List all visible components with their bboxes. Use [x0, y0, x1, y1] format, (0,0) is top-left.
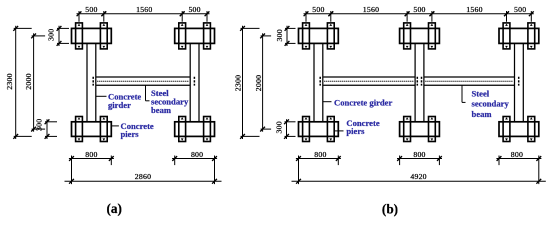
leader line: concrete girder (b) [323, 101, 332, 103]
svg-text:500: 500 [514, 5, 526, 14]
dimension 500 (b 1) [304, 5, 334, 16]
dimension 500 (a left) [77, 5, 107, 16]
a top-right pile cap [175, 28, 215, 43]
dimension 4920 (b) [292, 172, 546, 184]
b top-left pile cap [299, 28, 339, 43]
a top-left pier left [76, 23, 83, 49]
svg-text:300: 300 [35, 119, 44, 131]
svg-text:2000: 2000 [254, 75, 263, 91]
a bottom-right pier left [179, 117, 186, 142]
top dimension extension lines (b) [306, 11, 531, 22]
top dimension line (a) [77, 13, 210, 15]
svg-text:1560: 1560 [136, 5, 152, 14]
b top-right pier right [528, 23, 535, 49]
label Concrete girder (b) [334, 97, 392, 107]
b right concrete girder (double line) [515, 43, 524, 121]
dimension 500 (b 5) [504, 5, 534, 16]
label Steel secondary beam (b) [472, 89, 510, 119]
label Concrete piers (b) [346, 118, 379, 136]
svg-text:2300: 2300 [5, 73, 14, 89]
caption (a) [106, 201, 121, 216]
svg-text:Concrete girder: Concrete girder [334, 97, 392, 107]
label Steel secondary beam (a) [151, 88, 189, 115]
caption (b) [382, 202, 398, 217]
b bottom-left pier right [327, 117, 334, 142]
leader line: concrete piers (b) [334, 130, 343, 132]
a top-left pier right [100, 23, 107, 49]
svg-text:2860: 2860 [135, 172, 151, 181]
b left span steel secondary beam (solid edges + dotted centreline + dashed end caps) [320, 77, 417, 86]
svg-text:2300: 2300 [233, 75, 242, 91]
b top-left pier left [303, 23, 310, 49]
label Concrete girder (a) [108, 92, 141, 110]
dimension 500 (a right) [180, 5, 210, 16]
b bottom-mid pile cap [400, 122, 440, 137]
a bottom-right pier right [204, 117, 211, 142]
svg-text:300: 300 [275, 29, 284, 41]
b top-right pier left [503, 23, 510, 49]
a top-right pier left [179, 23, 186, 49]
b top-right pile cap [499, 28, 539, 43]
a steel secondary beam (solid edges + dotted centreline + dashed end caps) [93, 77, 194, 86]
svg-text:300: 300 [46, 29, 55, 41]
dimension 1560 (b 2) [328, 5, 409, 16]
dimension 800 (a left) [69, 150, 114, 184]
leader line: steel secondary beam (b) [462, 85, 466, 102]
svg-text:piers: piers [346, 126, 365, 136]
b top-left pier right [327, 23, 334, 49]
svg-text:secondary: secondary [472, 99, 510, 109]
dimension 2000 (a) [24, 33, 45, 131]
svg-text:800: 800 [85, 150, 97, 159]
a bottom-right pile cap [175, 122, 215, 137]
a top-left pile cap [72, 28, 112, 43]
b bottom-right pile cap [499, 122, 539, 137]
top dimension extension lines (a) [79, 11, 207, 22]
svg-text:beam: beam [151, 105, 172, 115]
svg-text:800: 800 [191, 150, 203, 159]
b top-mid pile cap [400, 28, 440, 43]
dimension 300 (a bottom) [35, 119, 58, 139]
svg-text:1560: 1560 [363, 5, 379, 14]
leader line: steel secondary beam (a) [146, 85, 150, 101]
dimension 800 (b mid) [397, 150, 442, 165]
dimension 1560 (a mid) [101, 5, 184, 16]
dimension 800 (b right) [496, 150, 541, 184]
dimension 300 (a top) [46, 26, 69, 46]
svg-text:500: 500 [413, 5, 425, 14]
top dimension line (b) [304, 13, 534, 15]
svg-text:girder: girder [108, 100, 131, 110]
a left concrete girder (double line) [87, 43, 96, 121]
a top-right pier right [204, 23, 211, 49]
dimension 1560 (b 4) [430, 5, 509, 16]
dimension 2300 (a) [5, 26, 32, 139]
b top-mid pier left [404, 23, 411, 49]
b bottom-mid pier left [404, 117, 411, 142]
svg-text:800: 800 [511, 150, 523, 159]
svg-text:Steel: Steel [472, 89, 490, 99]
a bottom-left pier right [100, 117, 107, 142]
svg-text:1560: 1560 [466, 5, 482, 14]
b left concrete girder (double line) [314, 43, 323, 121]
svg-text:(a): (a) [106, 201, 121, 216]
svg-text:800: 800 [314, 150, 326, 159]
b bottom-right pier right [528, 117, 535, 142]
svg-text:2000: 2000 [24, 73, 33, 89]
svg-text:800: 800 [413, 150, 425, 159]
svg-text:(b): (b) [382, 202, 398, 217]
b right span steel secondary beam (solid edges + dotted centreline + dashed end caps) [422, 77, 519, 86]
svg-text:beam: beam [472, 109, 493, 119]
svg-text:500: 500 [188, 5, 200, 14]
leader line: concrete girder (a) [96, 95, 107, 97]
a bottom-left pile cap [72, 122, 112, 137]
svg-text:piers: piers [121, 129, 140, 139]
svg-text:500: 500 [312, 5, 324, 14]
dimension 2000 (b) [254, 33, 271, 131]
dimension 500 (b 3) [405, 5, 435, 16]
dimension 2860 (a) [65, 172, 222, 184]
b top-mid pier right [429, 23, 436, 49]
b bottom-left pier left [303, 117, 310, 142]
b bottom-right pier left [503, 117, 510, 142]
label Concrete piers (a) [121, 121, 154, 139]
dimension 2300 (b) [233, 26, 259, 139]
dimension 800 (a right) [172, 150, 217, 184]
dimension 800 (b left) [296, 150, 341, 184]
b bottom-left pile cap [299, 122, 339, 137]
dimension 300 (b top) [275, 26, 296, 46]
a bottom-left pier left [76, 117, 83, 142]
svg-text:500: 500 [85, 5, 97, 14]
svg-text:300: 300 [275, 121, 284, 133]
leader line: concrete piers (a) [111, 125, 119, 127]
b bottom-mid pier right [429, 117, 436, 142]
a right concrete girder (double line) [190, 43, 199, 121]
svg-text:4920: 4920 [410, 172, 426, 181]
dimension 300 (b bottom) [275, 119, 296, 139]
b mid concrete girder (double line) [415, 43, 424, 121]
